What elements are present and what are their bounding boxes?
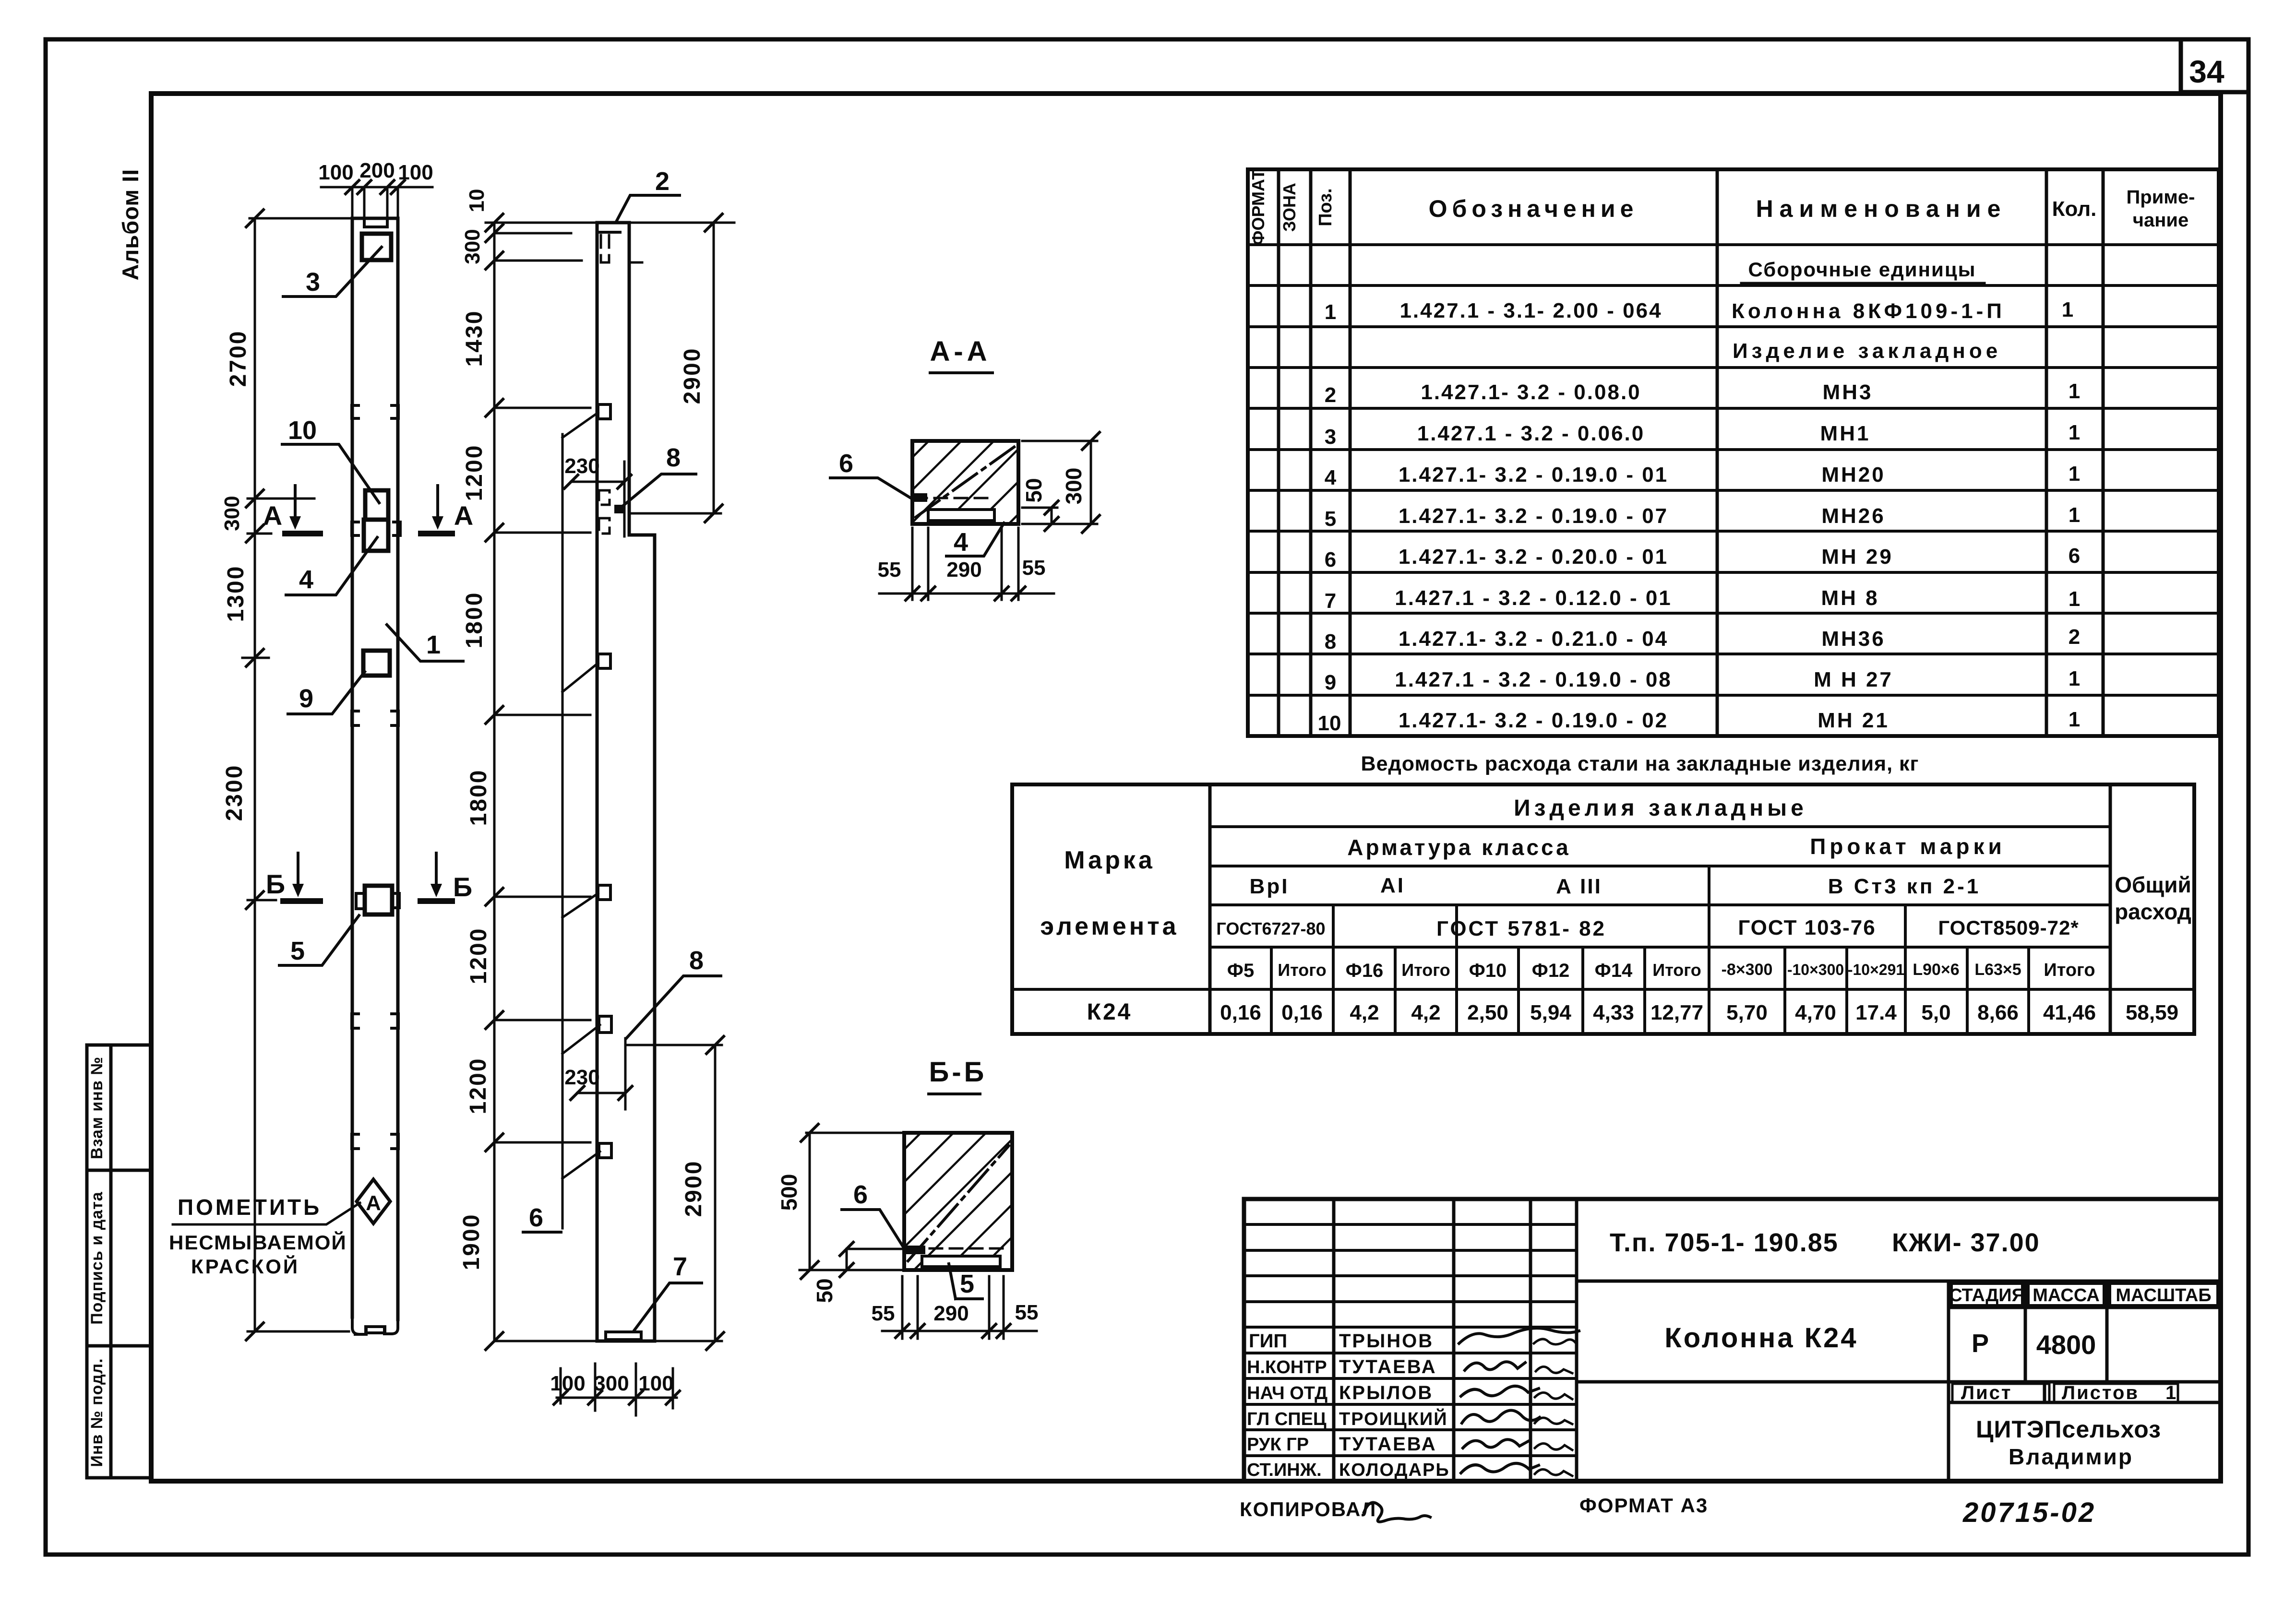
svg-text:1: 1 <box>2069 421 2080 444</box>
svg-text:ГОСТ8509-72*: ГОСТ8509-72* <box>1938 916 2079 939</box>
svg-text:1: 1 <box>2069 667 2080 690</box>
view2 channel mark solid 1 <box>598 404 610 419</box>
view1 section mark Б right <box>420 853 472 902</box>
svg-text:Поз.: Поз. <box>1315 188 1336 226</box>
svg-text:Т.п. 705-1- 190.85: Т.п. 705-1- 190.85 <box>1610 1228 1839 1257</box>
view2 column body outline <box>597 223 655 1341</box>
svg-text:0,16: 0,16 <box>1281 1001 1323 1024</box>
view2 hidden top plate (item 2, dashed) <box>601 235 609 262</box>
section A-A plate item 4 <box>911 493 994 521</box>
Лист / Листов row <box>1949 1382 2221 1402</box>
section A-A dim 50 <box>1021 478 1058 531</box>
left margin stamp strip <box>87 1045 151 1478</box>
svg-text:МН 21: МН 21 <box>1818 709 1889 732</box>
svg-text:МН1: МН1 <box>1820 422 1871 445</box>
svg-text:2: 2 <box>2069 625 2080 649</box>
svg-text:6: 6 <box>1325 548 1336 571</box>
svg-text:58,59: 58,59 <box>2126 1001 2178 1024</box>
section A-A concrete body (hatched) <box>912 441 1018 524</box>
svg-text:КРЫЛОВ: КРЫЛОВ <box>1339 1382 1433 1403</box>
view1 item 4 side tabs <box>352 522 400 535</box>
svg-text:50: 50 <box>1021 478 1046 502</box>
svg-text:Итого: Итого <box>1278 960 1327 980</box>
svg-text:Р: Р <box>1972 1329 1989 1358</box>
view2 channel mark solid 5 <box>599 1143 611 1158</box>
title cell Колонна К24 <box>1577 1281 2221 1481</box>
svg-text:Изделие закладное: Изделие закладное <box>1733 339 2001 363</box>
inner drawing frame <box>151 94 2221 1481</box>
svg-text:Общий: Общий <box>2115 872 2191 897</box>
view2 channel mark solid 3 <box>598 885 610 900</box>
svg-text:1: 1 <box>2069 708 2080 731</box>
svg-text:9: 9 <box>1325 671 1336 694</box>
svg-text:4,2: 4,2 <box>1411 1001 1440 1024</box>
svg-text:Б: Б <box>266 869 285 899</box>
svg-text:1.427.1- 3.2 - 0.19.0 - 07: 1.427.1- 3.2 - 0.19.0 - 07 <box>1399 504 1668 528</box>
svg-text:АI: АI <box>1380 874 1405 897</box>
svg-text:0,16: 0,16 <box>1220 1001 1261 1024</box>
svg-text:М Н 27: М Н 27 <box>1814 668 1893 691</box>
svg-text:1.427.1 - 3.2 - 0.12.0 - 01: 1.427.1 - 3.2 - 0.12.0 - 01 <box>1395 586 1672 610</box>
svg-text:8: 8 <box>1325 630 1336 653</box>
svg-text:Арматура класса: Арматура класса <box>1347 835 1571 860</box>
svg-text:Листов: Листов <box>2062 1382 2139 1403</box>
view2 channel mark solid 4 <box>599 1016 611 1033</box>
svg-text:Б-Б: Б-Б <box>929 1057 987 1088</box>
svg-text:НЕСМЫВАЕМОЙ: НЕСМЫВАЕМОЙ <box>169 1231 347 1254</box>
svg-text:Лист: Лист <box>1961 1382 2012 1403</box>
svg-text:300: 300 <box>594 1372 629 1395</box>
svg-text:ГОСТ6727-80: ГОСТ6727-80 <box>1216 919 1325 938</box>
svg-text:5,94: 5,94 <box>1530 1001 1571 1024</box>
svg-text:4800: 4800 <box>2036 1330 2096 1360</box>
svg-text:4,2: 4,2 <box>1350 1001 1379 1024</box>
svg-text:5: 5 <box>1325 507 1336 531</box>
svg-text:1800: 1800 <box>466 769 491 826</box>
svg-text:290: 290 <box>946 558 981 582</box>
view1 side notch pair 2 <box>352 711 398 725</box>
svg-text:1.427.1- 3.2 - 0.21.0 - 04: 1.427.1- 3.2 - 0.21.0 - 04 <box>1399 627 1668 651</box>
svg-text:8,66: 8,66 <box>1977 1001 2019 1024</box>
svg-text:55: 55 <box>878 558 901 582</box>
view1 side notch pair 1 <box>352 405 398 418</box>
svg-text:Итого: Итого <box>2044 960 2095 980</box>
svg-text:А III: А III <box>1556 875 1602 898</box>
svg-text:100: 100 <box>318 161 353 184</box>
svg-text:МН 8: МН 8 <box>1821 586 1879 610</box>
svg-text:3: 3 <box>306 268 320 297</box>
view2 right dimension 2900 lower <box>626 1036 724 1350</box>
svg-text:Сборочные единицы: Сборочные единицы <box>1748 258 1976 281</box>
svg-text:Ф10: Ф10 <box>1469 960 1507 981</box>
svg-text:8: 8 <box>689 946 704 975</box>
svg-text:5: 5 <box>290 937 305 965</box>
svg-text:Обозначение: Обозначение <box>1429 195 1638 222</box>
svg-text:1900: 1900 <box>459 1213 484 1271</box>
svg-text:1430: 1430 <box>462 310 487 367</box>
svg-text:Приме-: Приме- <box>2127 187 2195 208</box>
svg-text:4: 4 <box>1325 466 1337 489</box>
svg-text:Ф16: Ф16 <box>1346 960 1384 981</box>
svg-text:-8×300: -8×300 <box>1722 961 1773 979</box>
spec table grid <box>1248 169 2219 736</box>
svg-text:расход: расход <box>2115 899 2191 924</box>
svg-text:5: 5 <box>960 1270 974 1298</box>
svg-text:5,0: 5,0 <box>1921 1001 1950 1024</box>
svg-text:50: 50 <box>812 1278 837 1303</box>
paint note Пометить несмываемой краской <box>169 1195 360 1278</box>
svg-text:Ф5: Ф5 <box>1227 960 1254 981</box>
svg-text:8: 8 <box>666 443 681 472</box>
view1 embedded item 5 plate with side tabs <box>356 886 399 914</box>
svg-text:ЗОНА: ЗОНА <box>1280 183 1299 232</box>
svg-text:Марка: Марка <box>1064 846 1155 874</box>
svg-text:В Ст3 кп 2-1: В Ст3 кп 2-1 <box>1828 875 1981 898</box>
svg-text:НАЧ ОТД: НАЧ ОТД <box>1247 1383 1327 1403</box>
svg-text:ГИП: ГИП <box>1249 1330 1287 1352</box>
svg-text:4,33: 4,33 <box>1593 1001 1634 1024</box>
svg-text:-10×300: -10×300 <box>1787 961 1844 978</box>
svg-text:К24: К24 <box>1087 999 1133 1025</box>
svg-text:10: 10 <box>288 416 317 445</box>
svg-text:10: 10 <box>1318 712 1341 735</box>
svg-text:МН26: МН26 <box>1821 504 1885 528</box>
svg-text:1200: 1200 <box>466 927 491 985</box>
svg-text:7: 7 <box>1325 589 1336 613</box>
svg-text:1200: 1200 <box>462 444 487 501</box>
svg-text:ТРЫНОВ: ТРЫНОВ <box>1339 1330 1434 1352</box>
svg-text:ФОРМАТ: ФОРМАТ <box>1248 169 1268 245</box>
view2 dim 230 lower <box>564 1038 632 1109</box>
svg-text:100: 100 <box>550 1372 585 1395</box>
view1 column body outline <box>352 218 398 1334</box>
svg-text:чание: чание <box>2133 210 2188 231</box>
svg-text:СТАДИЯ: СТАДИЯ <box>1949 1285 2025 1306</box>
svg-text:4: 4 <box>954 528 968 557</box>
svg-text:20715-02: 20715-02 <box>1962 1497 2096 1528</box>
view2 item 6 leader line with branches <box>523 413 600 1232</box>
svg-text:10: 10 <box>465 189 489 213</box>
svg-text:500: 500 <box>777 1174 801 1211</box>
title cell Т.п. 705-1-190.85 КЖИ-37.00 <box>1577 1280 2221 1283</box>
svg-text:1200: 1200 <box>466 1057 491 1115</box>
svg-text:Ф12: Ф12 <box>1532 960 1570 981</box>
svg-text:Колонна К24: Колонна К24 <box>1664 1322 1858 1354</box>
svg-text:Прокат марки: Прокат марки <box>1810 834 2006 859</box>
svg-text:1: 1 <box>1325 300 1336 324</box>
svg-text:1: 1 <box>426 630 441 659</box>
svg-text:А: А <box>366 1191 381 1215</box>
svg-text:2: 2 <box>1325 383 1336 407</box>
svg-text:100: 100 <box>398 161 433 184</box>
svg-text:1.427.1- 3.2 - 0.19.0 - 02: 1.427.1- 3.2 - 0.19.0 - 02 <box>1399 709 1668 732</box>
view1 section mark Б left <box>266 853 320 901</box>
view1 embedded item 3 plate <box>362 234 391 260</box>
copier signature squiggle <box>1364 1503 1430 1522</box>
svg-text:-10×291: -10×291 <box>1848 961 1904 978</box>
svg-text:1.427.1 - 3.2 - 0.19.0 - 08: 1.427.1 - 3.2 - 0.19.0 - 08 <box>1395 668 1672 691</box>
view2 channel mark solid 2 <box>598 654 610 668</box>
svg-text:2: 2 <box>655 167 670 196</box>
section Б-Б bottom dims 55 290 55 <box>872 1276 1039 1339</box>
view1 marking diamond A <box>357 1179 390 1223</box>
Стадия/Масса/Масштаб header <box>1949 1281 2221 1382</box>
svg-text:1.427.1 - 3.1- 2.00 - 064: 1.427.1 - 3.1- 2.00 - 064 <box>1399 299 1662 322</box>
svg-text:ГОСТ 103-76: ГОСТ 103-76 <box>1738 916 1876 939</box>
svg-text:1: 1 <box>2069 380 2080 403</box>
svg-text:300: 300 <box>1061 468 1086 505</box>
svg-text:КОПИРОВАЛ: КОПИРОВАЛ <box>1240 1498 1376 1520</box>
svg-text:РУК ГР: РУК ГР <box>1247 1435 1309 1455</box>
svg-text:Итого: Итого <box>1401 960 1450 980</box>
svg-text:МАСШТАБ: МАСШТАБ <box>2116 1285 2211 1306</box>
svg-text:55: 55 <box>1015 1301 1039 1324</box>
svg-text:2300: 2300 <box>222 764 247 821</box>
view2 left dimension chain <box>459 189 734 1350</box>
svg-text:элемента: элемента <box>1040 913 1179 940</box>
svg-text:А: А <box>263 500 282 531</box>
svg-text:ТРОИЦКИЙ: ТРОИЦКИЙ <box>1339 1408 1448 1429</box>
view2 bottom width dimension 100 300 100 <box>550 1364 680 1415</box>
view1 section mark A left <box>263 486 320 534</box>
svg-text:ГОСТ 5781- 82: ГОСТ 5781- 82 <box>1436 917 1606 940</box>
section A-A bottom dims 55 290 55 <box>878 528 1054 600</box>
svg-text:МАССА: МАССА <box>2033 1285 2100 1306</box>
svg-text:МН20: МН20 <box>1821 463 1885 487</box>
svg-text:Н.КОНТР: Н.КОНТР <box>1247 1357 1327 1377</box>
svg-text:ПОМЕТИТЬ: ПОМЕТИТЬ <box>178 1195 322 1220</box>
svg-text:Изделия закладные: Изделия закладные <box>1514 796 1807 821</box>
svg-text:МН 29: МН 29 <box>1821 545 1893 569</box>
svg-text:3: 3 <box>1325 425 1336 449</box>
svg-text:ГЛ СПЕЦ: ГЛ СПЕЦ <box>1247 1409 1327 1429</box>
svg-text:230: 230 <box>564 1066 599 1089</box>
svg-text:1: 1 <box>2069 503 2080 527</box>
svg-text:Ведомость расхода стали на зак: Ведомость расхода стали на закладные изд… <box>1361 752 1919 775</box>
view1 embedded item 4 plate <box>364 520 388 551</box>
svg-text:4: 4 <box>299 565 313 594</box>
svg-text:2700: 2700 <box>226 330 251 387</box>
view1 side notch pair 3 <box>352 1014 398 1028</box>
svg-text:Итого: Итого <box>1652 960 1701 980</box>
section Б-Б dim 50 <box>812 1242 904 1303</box>
svg-text:МН36: МН36 <box>1821 627 1885 651</box>
section Б-Б concrete body (hatched) <box>904 1133 1012 1270</box>
view2 base pad item 7 <box>606 1332 641 1340</box>
svg-text:Подпись и дата: Подпись и дата <box>88 1191 106 1325</box>
svg-text:Альбом II: Альбом II <box>118 169 143 281</box>
svg-text:1.427.1 - 3.2 - 0.06.0: 1.427.1 - 3.2 - 0.06.0 <box>1417 422 1645 445</box>
svg-text:300: 300 <box>220 496 244 531</box>
svg-text:230: 230 <box>564 454 599 478</box>
title block outline <box>1244 1199 2221 1481</box>
view1 section mark A right <box>421 486 473 534</box>
svg-text:Владимир: Владимир <box>2009 1444 2133 1469</box>
svg-text:1: 1 <box>2165 1382 2176 1403</box>
svg-text:17.4: 17.4 <box>1855 1001 1897 1024</box>
svg-text:1: 1 <box>2069 462 2080 486</box>
svg-text:6: 6 <box>853 1180 868 1209</box>
svg-text:ВрI: ВрI <box>1250 875 1290 898</box>
sheet number box "34" <box>2181 41 2247 92</box>
svg-text:5,70: 5,70 <box>1726 1001 1768 1024</box>
view1 side notch pair 4 <box>352 1134 398 1149</box>
svg-text:300: 300 <box>461 229 484 264</box>
signature grid <box>1244 1199 1577 1481</box>
svg-text:ФОРМАТ А3: ФОРМАТ А3 <box>1579 1494 1708 1517</box>
svg-text:ТУТАЕВА: ТУТАЕВА <box>1339 1434 1437 1455</box>
svg-text:290: 290 <box>933 1302 969 1325</box>
svg-text:2900: 2900 <box>680 347 705 404</box>
view1 top width dimension 100 200 100 <box>318 159 433 216</box>
svg-text:Ф14: Ф14 <box>1595 960 1633 981</box>
svg-text:34: 34 <box>2189 54 2224 89</box>
svg-text:Кол.: Кол. <box>2052 197 2097 221</box>
svg-text:КОЛОДАРЬ: КОЛОДАРЬ <box>1339 1460 1450 1480</box>
svg-text:200: 200 <box>359 159 395 182</box>
svg-text:55: 55 <box>872 1302 895 1325</box>
svg-text:Б: Б <box>453 872 472 902</box>
section A-A dim 300 <box>1022 432 1100 533</box>
svg-text:41,46: 41,46 <box>2043 1001 2096 1024</box>
section Б-Б dim 500 <box>777 1124 904 1279</box>
view2 dim 230 upper <box>564 454 631 536</box>
svg-text:МН3: МН3 <box>1823 380 1873 404</box>
svg-text:ТУТАЕВА: ТУТАЕВА <box>1339 1356 1437 1377</box>
svg-text:2900: 2900 <box>681 1160 706 1217</box>
svg-text:1.427.1- 3.2 - 0.20.0 - 01: 1.427.1- 3.2 - 0.20.0 - 01 <box>1399 545 1668 569</box>
svg-text:Колонна 8КФ109-1-П: Колонна 8КФ109-1-П <box>1732 299 2005 323</box>
view2 hidden channel marks (dashed) <box>599 490 610 505</box>
svg-text:12,77: 12,77 <box>1650 1001 1703 1024</box>
section Б-Б plate item 5 <box>904 1246 1005 1267</box>
svg-text:55: 55 <box>1022 556 1046 580</box>
view2 small anchor mark at 8 leader <box>614 505 624 513</box>
view1 embedded item 9 plate <box>363 651 390 676</box>
steel table grid <box>1012 784 2194 1034</box>
svg-text:9: 9 <box>299 684 313 713</box>
svg-text:Взам инв №: Взам инв № <box>88 1057 106 1159</box>
svg-text:1: 1 <box>2062 298 2073 321</box>
svg-text:А: А <box>454 500 473 531</box>
svg-text:КРАСКОЙ: КРАСКОЙ <box>191 1255 299 1278</box>
svg-text:L90×6: L90×6 <box>1913 961 1959 979</box>
view1 embedded item 10 plate <box>365 490 388 520</box>
svg-text:100: 100 <box>638 1372 673 1395</box>
svg-text:1.427.1- 3.2 - 0.08.0: 1.427.1- 3.2 - 0.08.0 <box>1421 380 1641 404</box>
svg-text:1300: 1300 <box>223 565 249 622</box>
svg-text:6: 6 <box>839 449 853 478</box>
svg-text:КЖИ- 37.00: КЖИ- 37.00 <box>1892 1228 2040 1257</box>
svg-text:А-А: А-А <box>930 336 991 367</box>
svg-text:L63×5: L63×5 <box>1974 961 2021 979</box>
svg-text:Наименование: Наименование <box>1756 195 2007 222</box>
svg-text:1: 1 <box>2069 587 2080 611</box>
svg-text:1.427.1- 3.2 - 0.19.0 - 01: 1.427.1- 3.2 - 0.19.0 - 01 <box>1399 463 1668 487</box>
svg-text:6: 6 <box>529 1203 543 1232</box>
svg-text:Инв № подл.: Инв № подл. <box>88 1358 106 1467</box>
svg-text:7: 7 <box>673 1252 687 1281</box>
svg-text:4,70: 4,70 <box>1795 1001 1836 1024</box>
svg-text:6: 6 <box>2069 544 2080 568</box>
svg-text:СТ.ИНЖ.: СТ.ИНЖ. <box>1247 1460 1322 1480</box>
view1 left dimension chain <box>220 210 355 1340</box>
svg-text:ЦИТЭПсельхоз: ЦИТЭПсельхоз <box>1976 1416 2161 1443</box>
svg-text:1800: 1800 <box>462 592 487 649</box>
svg-text:2,50: 2,50 <box>1467 1001 1508 1024</box>
view2 right dimension 2900 upper <box>629 214 722 522</box>
